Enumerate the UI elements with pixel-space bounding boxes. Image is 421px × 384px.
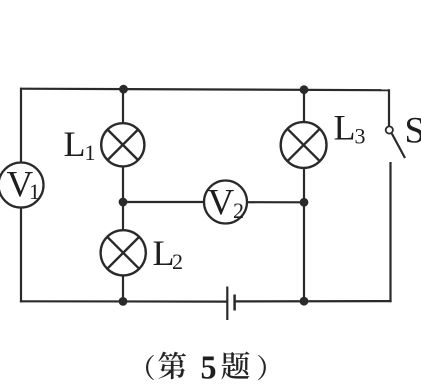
svg-text:L: L (334, 107, 356, 147)
wire lamp L1 branch upper (122, 89, 124, 124)
svg-text:5: 5 (201, 350, 217, 384)
node junction bottom-right (dot) (300, 297, 309, 306)
svg-text:1: 1 (85, 140, 96, 165)
wire left upper (20, 88, 22, 165)
wire left lower (20, 208, 22, 303)
switch S pivot contact (386, 126, 393, 133)
wire between L1 and middle node (122, 167, 124, 204)
wire right lower (389, 162, 391, 302)
svg-text:2: 2 (172, 249, 183, 274)
caption close paren (258, 355, 266, 380)
wire bottom right (235, 300, 392, 302)
battery long plate (+) (226, 287, 228, 321)
lamp L3 (281, 122, 327, 168)
node junction bottom-left (dot) (119, 297, 128, 306)
svg-text:S: S (405, 111, 421, 152)
wire branch2 lower (303, 202, 305, 301)
wire right upper (388, 89, 390, 126)
switch S blade (392, 134, 405, 159)
wire middle right (247, 201, 305, 203)
voltmeter V1 (0, 163, 44, 208)
caption character DI (ordinal marker) (158, 352, 186, 380)
svg-text:V: V (208, 182, 235, 223)
node junction top-right (dot) (300, 85, 309, 94)
wire lamp L2 branch upper (122, 202, 124, 231)
svg-text:1: 1 (29, 179, 40, 204)
voltmeter V2 (204, 181, 247, 224)
lamp L2 (101, 230, 146, 275)
wire lamp L2 branch lower (122, 275, 124, 301)
wire between L3 and middle-right node (303, 168, 305, 203)
svg-text:2: 2 (233, 198, 244, 223)
svg-text:L: L (64, 124, 86, 164)
wire lamp L3 branch upper (303, 90, 305, 123)
caption open paren (146, 355, 154, 380)
node junction middle-left (dot) (119, 198, 128, 207)
caption character TI (problem) (221, 351, 249, 379)
wire top (20, 89, 389, 91)
wire bottom left (20, 300, 227, 303)
node junction middle-right (dot) (300, 198, 309, 207)
lamp L1 (101, 123, 144, 166)
node junction top-left (dot) (119, 85, 128, 94)
svg-text:3: 3 (355, 123, 366, 148)
wire middle left (123, 201, 204, 203)
battery short plate (-) (233, 295, 236, 311)
